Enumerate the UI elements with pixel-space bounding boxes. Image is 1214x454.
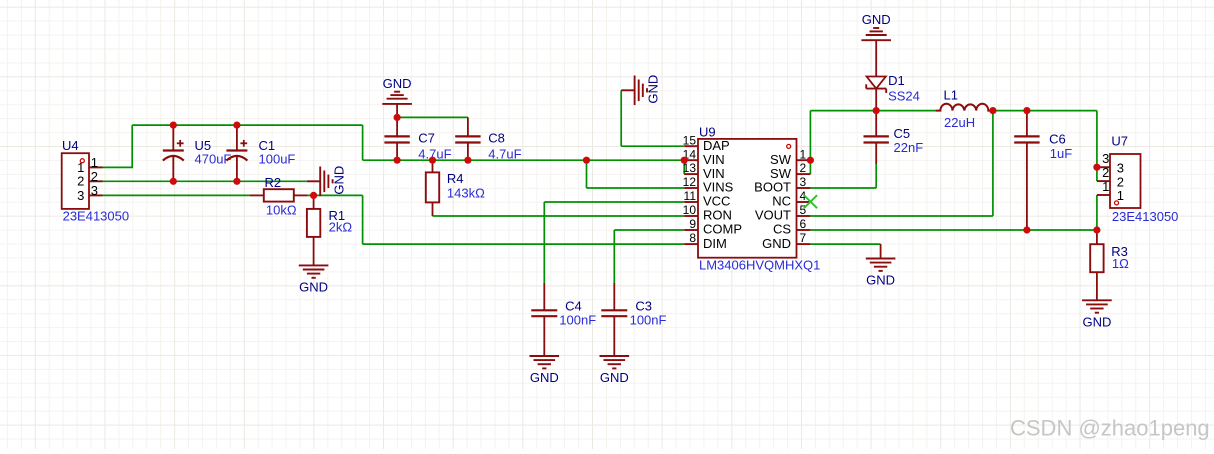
svg-text:NC: NC xyxy=(772,194,791,209)
svg-text:GND: GND xyxy=(1082,315,1111,330)
junction VIN rail VINS tap xyxy=(583,157,590,164)
wire U4 pin1 to riser xyxy=(103,166,133,168)
svg-text:VOUT: VOUT xyxy=(755,208,791,223)
svg-text:GND: GND xyxy=(299,280,328,295)
svg-text:COMP: COMP xyxy=(703,222,742,237)
svg-text:VIN: VIN xyxy=(703,152,725,167)
svg-text:DIM: DIM xyxy=(703,236,727,251)
wire DAP rail y146 to U9 pin15 xyxy=(621,145,684,147)
ground flipped above D1 xyxy=(861,12,891,76)
svg-text:VINS: VINS xyxy=(703,180,734,195)
svg-text:2: 2 xyxy=(77,174,84,189)
resistor R1 2k xyxy=(307,195,352,237)
svg-text:DAP: DAP xyxy=(703,138,730,153)
svg-text:3: 3 xyxy=(800,175,807,189)
junction C6 top xyxy=(1023,107,1030,114)
ground at R3 bottom xyxy=(1082,273,1112,330)
svg-text:2kΩ: 2kΩ xyxy=(329,220,353,235)
svg-text:2: 2 xyxy=(1117,174,1124,189)
junction C7 top ground node xyxy=(394,114,401,121)
svg-text:22nF: 22nF xyxy=(894,140,924,155)
junction top rail at C1 xyxy=(233,122,240,129)
resistor R2 10k xyxy=(250,175,308,217)
svg-text:CSDN @zhao1peng: CSDN @zhao1peng xyxy=(1010,416,1210,441)
junction U9 pin1 pin2 tie xyxy=(807,157,814,164)
capacitor C6 1uF xyxy=(1014,111,1072,230)
svg-text:1: 1 xyxy=(800,147,807,161)
svg-text:LM3406HVQMHXQ1: LM3406HVQMHXQ1 xyxy=(699,257,820,272)
wire VOUT y216 from U9 pin5 xyxy=(810,215,993,217)
svg-text:L1: L1 xyxy=(944,88,958,103)
wire DAP ground riser x621 xyxy=(620,90,622,146)
junction L1 output VOUT xyxy=(989,107,996,114)
resistor R3 1ohm xyxy=(1090,230,1129,272)
svg-text:C6: C6 xyxy=(1049,131,1066,146)
capacitor U5 470uF xyxy=(163,125,232,181)
diode D1 SS24 xyxy=(866,73,920,111)
junction top rail at U5 xyxy=(170,122,177,129)
wire VIN rail y160 to U9 pin14 xyxy=(363,159,685,161)
wire U4 pin2 GND rail y181 xyxy=(103,180,307,182)
svg-text:2: 2 xyxy=(91,169,98,184)
svg-text:SW: SW xyxy=(770,152,792,167)
junction R2 R1 DIM node xyxy=(310,192,317,199)
svg-text:100nF: 100nF xyxy=(559,312,596,327)
svg-text:GND: GND xyxy=(383,76,412,91)
ground at C3 bottom xyxy=(600,316,630,385)
svg-text:U4: U4 xyxy=(62,138,79,153)
inductor L1 22uH xyxy=(936,88,993,130)
svg-text:U7: U7 xyxy=(1111,133,1128,148)
svg-text:6: 6 xyxy=(800,217,807,231)
wire C4 riser x544 xyxy=(543,202,545,283)
ground flipped above C7 xyxy=(382,76,412,118)
junction gnd rail at U5 xyxy=(170,178,177,185)
svg-text:100nF: 100nF xyxy=(630,312,667,327)
svg-text:11: 11 xyxy=(684,189,697,203)
wire SW rail y110 to L1 xyxy=(810,110,935,112)
no-connect cross U9 pin4 xyxy=(804,195,817,208)
wire BOOT y188 to C5 xyxy=(810,187,876,189)
svg-text:CS: CS xyxy=(773,222,791,237)
wire DIM corner down x362 xyxy=(362,195,364,244)
wire DIM rail y244 to U9 pin8 xyxy=(363,243,685,245)
svg-text:22uH: 22uH xyxy=(944,115,975,130)
wire U7 pin3-pin2 tie xyxy=(1096,167,1098,181)
capacitor C1 100uF xyxy=(226,125,295,181)
junction gnd rail at C1 xyxy=(233,178,240,185)
svg-text:VCC: VCC xyxy=(703,194,730,209)
svg-text:1: 1 xyxy=(91,155,98,170)
wire U7 pin1 down to CS rail xyxy=(1096,195,1098,230)
wire C7 ground to C8 top xyxy=(397,116,468,118)
svg-text:C7: C7 xyxy=(418,131,435,146)
svg-text:23E413050: 23E413050 xyxy=(63,209,130,224)
junction C6 bottom CS rail xyxy=(1023,226,1030,233)
wire VINS jog down at x586 xyxy=(586,160,588,188)
wire C5 bottom riser xyxy=(875,164,877,188)
svg-text:C5: C5 xyxy=(894,126,911,141)
svg-text:D1: D1 xyxy=(888,73,905,88)
svg-text:10kΩ: 10kΩ xyxy=(266,202,297,217)
svg-text:BOOT: BOOT xyxy=(754,180,791,195)
wire U9 pin1-pin2 tie and riser to SW rail xyxy=(809,111,811,175)
svg-text:GND: GND xyxy=(646,75,661,104)
svg-text:GND: GND xyxy=(762,236,791,251)
svg-text:1uF: 1uF xyxy=(1050,146,1072,161)
capacitor C3 100nF xyxy=(601,283,666,327)
op-amp U9 LM3406HVQMHXQ1 xyxy=(683,125,821,273)
ground at R1 bottom xyxy=(299,237,329,295)
junction CS R3 U7 pin1 node xyxy=(1093,226,1100,233)
junction VIN rail at R4 xyxy=(429,157,436,164)
junction VIN rail at C7 xyxy=(394,157,401,164)
ground at C4 bottom xyxy=(530,316,560,385)
svg-text:2: 2 xyxy=(1102,165,1109,180)
wire corner down to U7 pin3 xyxy=(1096,111,1098,168)
svg-text:R4: R4 xyxy=(447,171,464,186)
wire L1 out rail to U7 corner xyxy=(993,110,1097,112)
svg-text:1: 1 xyxy=(1117,188,1124,203)
svg-text:R2: R2 xyxy=(265,175,282,190)
svg-text:SW: SW xyxy=(770,166,792,181)
connector U4 xyxy=(62,138,129,223)
svg-text:4.7uF: 4.7uF xyxy=(488,147,521,162)
svg-text:2: 2 xyxy=(800,161,807,175)
svg-text:10: 10 xyxy=(683,203,697,217)
svg-text:15: 15 xyxy=(683,133,697,147)
resistor R4 143k xyxy=(426,160,485,216)
svg-text:143kΩ: 143kΩ xyxy=(447,185,485,200)
svg-text:100uF: 100uF xyxy=(259,152,296,167)
ground at U9 pin7 xyxy=(866,244,896,288)
svg-text:23E413050: 23E413050 xyxy=(1112,209,1179,224)
svg-text:U9: U9 xyxy=(699,125,716,140)
capacitor C4 100nF xyxy=(531,283,596,327)
wire top VIN rail y125 xyxy=(132,124,362,126)
svg-text:1Ω: 1Ω xyxy=(1112,256,1129,271)
wire VCC rail y202 from C4 to U9 pin11 xyxy=(544,201,684,203)
wire riser x132 up to top rail xyxy=(131,125,133,168)
svg-text:3: 3 xyxy=(91,183,98,198)
svg-text:9: 9 xyxy=(689,217,696,231)
wire VOUT riser x993 up to L1 out xyxy=(992,111,994,216)
capacitor C7 4.7uF xyxy=(384,117,451,161)
svg-text:470uF: 470uF xyxy=(195,152,232,167)
svg-text:GND: GND xyxy=(862,12,891,27)
wire pin14 to pin13 jog xyxy=(683,160,685,174)
svg-text:GND: GND xyxy=(600,370,629,385)
wire RON rail y216 from R4 to U9 pin10 xyxy=(433,215,685,217)
wire R2 right to DIM corner xyxy=(308,194,363,196)
wire VINS to U9 pin12 xyxy=(587,187,685,189)
capacitor C8 4.7uF xyxy=(455,117,521,161)
svg-text:VIN: VIN xyxy=(703,166,725,181)
svg-text:GND: GND xyxy=(530,370,559,385)
wire U9 pin7 ground y244 xyxy=(810,243,880,245)
svg-text:8: 8 xyxy=(689,231,696,245)
junction SW rail at D1 C5 xyxy=(873,107,880,114)
svg-text:GND: GND xyxy=(331,166,346,195)
svg-text:C8: C8 xyxy=(488,131,505,146)
svg-text:7: 7 xyxy=(800,231,807,245)
svg-text:3: 3 xyxy=(1102,151,1109,166)
ground rotated above U9 DAP xyxy=(621,75,661,105)
capacitor C5 22nF xyxy=(864,111,924,164)
svg-text:5: 5 xyxy=(800,203,807,217)
svg-text:3: 3 xyxy=(1117,160,1124,175)
svg-text:RON: RON xyxy=(703,208,732,223)
junction U9 pin14 pin13 tie xyxy=(681,157,688,164)
svg-text:SS24: SS24 xyxy=(888,89,920,104)
connector U7 xyxy=(1097,133,1179,223)
wire C3 riser x614 xyxy=(613,230,615,283)
svg-text:3: 3 xyxy=(77,188,84,203)
wire VIN corner down x362 xyxy=(362,125,364,160)
junction U7 pin3 tie xyxy=(1093,164,1100,171)
svg-text:1: 1 xyxy=(77,160,84,175)
wire U4 pin3 to R2 xyxy=(103,194,251,196)
junction VIN rail at C8 xyxy=(464,157,471,164)
ground rotated at R2 net xyxy=(307,166,347,196)
wire CS rail y230 from U9 pin6 xyxy=(810,229,1097,231)
svg-text:12: 12 xyxy=(683,175,697,189)
svg-text:1: 1 xyxy=(1102,179,1109,194)
svg-text:GND: GND xyxy=(866,273,895,288)
wire COMP rail y230 from C3 to U9 pin9 xyxy=(614,229,684,231)
